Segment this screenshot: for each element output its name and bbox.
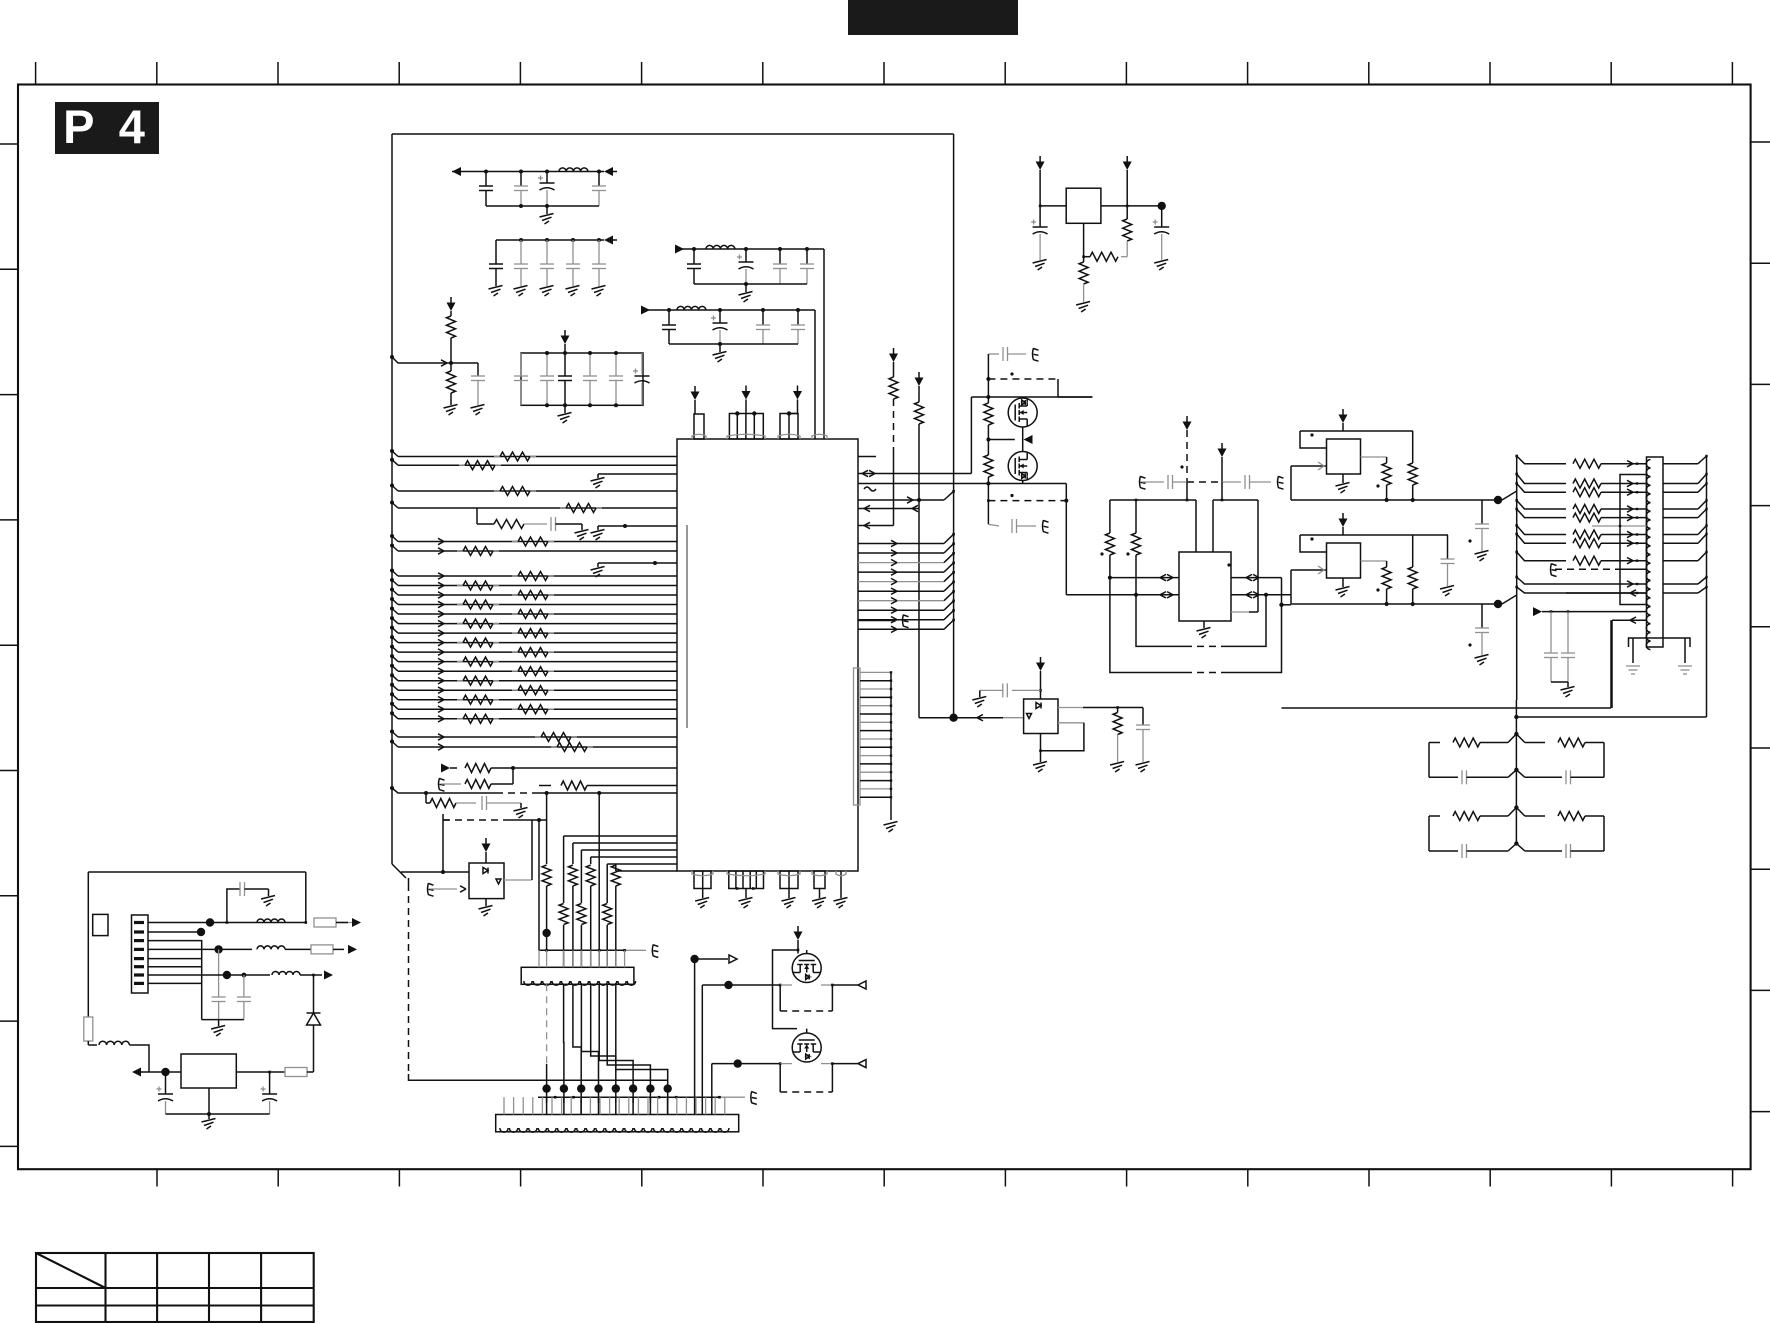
CN4 pin arcs [500, 1128, 508, 1132]
wire bus tap [390, 588, 394, 592]
epsilon stub [1033, 348, 1039, 361]
wire row y=604.5 [398, 604, 677, 606]
divider power flag [450, 297, 452, 303]
connector CN2 body [1647, 457, 1664, 647]
resistor R1 [457, 585, 463, 587]
wire [1290, 570, 1292, 604]
U3 feedback loop [1058, 722, 1084, 724]
capacitor X1Cy [1481, 500, 1483, 524]
ground [1136, 762, 1150, 766]
wire gate row [987, 428, 989, 455]
junction [1514, 715, 1518, 719]
IC U1 bottom pads [692, 871, 713, 876]
power flag VDD3 [797, 386, 799, 392]
wire riser 919 elbow to U3 [919, 717, 954, 719]
wire rail drops [1109, 500, 1111, 533]
resistor CN2 R4 [1573, 505, 1601, 514]
arrow [438, 716, 444, 719]
wire bus tap [390, 673, 394, 677]
junction [449, 361, 453, 365]
junction [724, 981, 732, 989]
wire bus tap [390, 654, 394, 658]
junction [667, 308, 671, 312]
wire [524, 523, 547, 525]
filter F1 left off-page arrow [452, 167, 461, 176]
wire [307, 1071, 314, 1073]
ground [566, 286, 580, 290]
wire riser 919 [918, 500, 920, 718]
wire [443, 819, 449, 821]
tilde glyph [864, 487, 876, 491]
capacitor C44 branch [227, 889, 240, 923]
CN1 wire 1 [148, 922, 306, 924]
termination C pair row [1508, 770, 1525, 778]
tiny dot [1468, 643, 1471, 646]
resistor R1 [512, 689, 518, 691]
resistor CN2 R8 [1573, 556, 1601, 565]
wire left pin2 [1291, 465, 1327, 467]
wire left drop [1300, 431, 1327, 448]
capacitor C25 [550, 517, 552, 531]
oscillator X1 top rail [1300, 430, 1413, 432]
wire [129, 1045, 149, 1072]
capacitor C48 electrolytic [269, 1072, 271, 1094]
power flag bank [564, 330, 566, 336]
arrow [438, 706, 444, 709]
ground [745, 889, 747, 899]
ground [702, 889, 704, 899]
wire nested row 1 [573, 842, 677, 844]
arrow [438, 548, 444, 551]
wire row y=680.7 [398, 680, 677, 682]
arrow [438, 668, 444, 671]
resistor R2 [450, 363, 452, 371]
wire [598, 525, 677, 527]
connector CN2 pin arcs [1646, 460, 1650, 468]
resistor R1 [551, 746, 557, 748]
filter F3 bottom rail [694, 283, 807, 285]
wire shuffle 0 [546, 984, 548, 1064]
wire row 483 right [858, 483, 988, 485]
page label P 4 [55, 102, 159, 154]
termination left edge [1428, 816, 1430, 851]
filter F4 bottom rail [669, 343, 798, 345]
tiny dot [1310, 537, 1313, 540]
bottom margin tick marks [156, 1169, 158, 1186]
wire bundle row [858, 609, 944, 611]
wire riser [970, 397, 972, 474]
power flag VDD2 [745, 386, 747, 392]
junction [511, 766, 515, 770]
IC U1 top pin stub group 3 [780, 414, 798, 440]
junction output node [1494, 496, 1502, 504]
resistor R1 [560, 507, 566, 509]
block outline right edge vertical bus [953, 134, 955, 491]
junction [545, 949, 548, 952]
resistor CN2 R7 [1573, 539, 1601, 548]
resistor CN2 R3 [1573, 488, 1601, 497]
inductor L7 [272, 972, 300, 975]
power flag dashed net [893, 348, 895, 354]
capacitor C7 [546, 240, 548, 264]
CN2 row right side [1663, 491, 1698, 493]
capacitor C30 [1002, 347, 1004, 361]
wire U4 to oscillator B [1282, 604, 1292, 606]
wire row y=709.2 [398, 708, 677, 710]
wire bus tap [390, 597, 394, 601]
tiny dot [1310, 433, 1313, 436]
IC U1 bottom pin stub 4 [814, 871, 825, 889]
dashed link [1187, 481, 1222, 483]
junction [519, 170, 523, 174]
CN3 pin arcs [524, 981, 532, 985]
capacitor C34 net [1140, 476, 1146, 489]
wire shuffle 4 [591, 984, 616, 1088]
wire row y=508 [398, 507, 677, 509]
wire U6 row [135, 1071, 181, 1073]
junction [1116, 706, 1119, 709]
wire top rail [970, 396, 972, 398]
capacitor C41 [1567, 612, 1569, 653]
transistor Q1 mosfet [1008, 398, 1037, 427]
black header box top center [848, 0, 1018, 35]
fuse F1 vertical [84, 1017, 93, 1041]
wire bus bottom elbow to lower strip [409, 1074, 668, 1080]
ground [261, 896, 275, 900]
resistor R1 [457, 680, 463, 682]
column 590 [590, 857, 592, 864]
resistor R1 [512, 651, 518, 653]
long wire from bus [409, 1079, 668, 1081]
capacitor C26 [481, 796, 483, 810]
wire gnd stub row 563 [598, 562, 677, 564]
capacitor C19 [546, 353, 548, 376]
ground [514, 286, 528, 290]
column 546 [546, 793, 548, 864]
power flag VDD1 [694, 386, 696, 392]
ground [745, 284, 747, 292]
wire row y=456.5 [398, 456, 677, 458]
arrow [438, 687, 444, 690]
power flag U5 in [1039, 156, 1041, 162]
resistor R46 [1132, 533, 1141, 555]
block outline chamfer [392, 864, 406, 878]
wire row 397 [971, 396, 1092, 398]
arrow gate node [1024, 435, 1033, 444]
column 563 [563, 836, 565, 903]
junction [268, 1071, 271, 1074]
wire cap risers [1186, 482, 1188, 500]
resistor CN2 R2 [1573, 479, 1601, 488]
CN1 wire 7 [148, 974, 270, 976]
inductor L1 [559, 168, 588, 172]
arrow [438, 744, 444, 747]
block outline top edge [392, 133, 954, 135]
CN2 row right side [1663, 534, 1698, 536]
wire bus tap [390, 544, 394, 548]
power flag U4 [1221, 443, 1223, 449]
termination center bus [1515, 700, 1517, 844]
CN2 wire row 3 [1515, 482, 1518, 485]
net bus collector [890, 672, 892, 820]
ground [1475, 551, 1489, 555]
wire row y=737 [398, 736, 677, 738]
wire [1017, 525, 1037, 527]
resistor R30 [465, 764, 491, 773]
filter F1 right arrow [604, 167, 613, 176]
wire C45 drop [218, 949, 220, 997]
wire bus tap [390, 569, 394, 573]
arrow [438, 639, 444, 642]
resistor R1 [512, 541, 518, 543]
wire Q2 source [1022, 481, 1024, 484]
resistor R1 [457, 623, 463, 625]
wire shuffle 7 [616, 984, 668, 1088]
ground [1033, 260, 1047, 264]
Q3 bypass loop [779, 985, 781, 1011]
ground [592, 286, 606, 290]
wire row 508 right [858, 508, 919, 510]
CN3 pin drops [538, 950, 540, 967]
capacitor C22 [615, 353, 617, 376]
wire [1065, 484, 1067, 595]
power flag U5 out [1126, 156, 1128, 162]
capacitor C40 [1550, 612, 1552, 653]
junction [986, 438, 990, 442]
junction [1514, 841, 1518, 845]
power arrow row 768 [441, 764, 450, 773]
arrow [441, 360, 447, 363]
wire [87, 1041, 89, 1045]
ground [788, 889, 790, 899]
resistor R1 [459, 464, 465, 466]
wire bus tap [390, 711, 394, 715]
arrow [438, 678, 444, 681]
ground stub [591, 530, 605, 534]
wire columns into CN4 [546, 1097, 548, 1114]
arrow left out [132, 1068, 141, 1077]
capacitor C5 [495, 240, 497, 264]
CN2 wire row 7 [1515, 533, 1518, 536]
CN2 wire row 5 [1515, 508, 1518, 511]
component outline small rect [93, 914, 108, 935]
arrow [438, 601, 444, 604]
resistor R1 [457, 550, 463, 552]
bus vertical right of IC [953, 491, 955, 717]
wire nested row 3 [591, 856, 677, 858]
IC U1 microcontroller body [677, 439, 858, 871]
ground X2 [1342, 578, 1344, 587]
resistor R1 [512, 575, 518, 577]
capacitor C4 [598, 172, 600, 187]
wire nested row 2 [581, 849, 677, 851]
wire bus tap [390, 607, 394, 611]
junction [214, 945, 222, 953]
wire osc A left link [1290, 465, 1292, 467]
CN2 row right side [1663, 483, 1698, 485]
wire row 500 right [858, 499, 944, 501]
resistor CN2 R1 [1573, 459, 1601, 468]
termination R pair row [1508, 734, 1525, 743]
tiny dot [1100, 552, 1103, 555]
junction [597, 170, 601, 174]
resistor R45 [1105, 533, 1114, 555]
ground [208, 1114, 210, 1119]
wire nested row 5 [616, 870, 677, 872]
capacitor C3 electrolytic [546, 172, 548, 184]
junction [223, 971, 231, 979]
junction [1135, 499, 1138, 502]
BL bottom bus [166, 1113, 270, 1115]
diode box U2 [469, 863, 504, 899]
junction [986, 377, 990, 381]
column 572 [572, 843, 574, 864]
junction [161, 1068, 169, 1076]
capacitor C21 [589, 353, 591, 376]
ground [1475, 655, 1489, 659]
CN2 row right side [1663, 542, 1698, 544]
dashed row 379 [988, 378, 1058, 380]
wire rail link row 717 [1516, 716, 1706, 718]
epsilon stub [439, 778, 445, 791]
wire cap bottoms [1551, 681, 1568, 683]
junction [1082, 255, 1085, 258]
arrow [438, 592, 444, 595]
IC U1 top pin stub 1 [694, 414, 704, 439]
wire shuffle 5 [599, 984, 633, 1088]
resistor R1 [457, 604, 463, 606]
wire row y=699.7 [398, 699, 677, 701]
wire bundle row [858, 628, 944, 630]
capacitor C14 [668, 310, 670, 325]
junction [1126, 205, 1129, 208]
capacitor C45 [212, 996, 226, 998]
wire bundle row [858, 619, 944, 621]
junction output node [1494, 600, 1502, 608]
top margin tick marks [35, 62, 37, 85]
wire bus tap [390, 484, 394, 488]
IC U1 right port pins to bus [860, 671, 891, 673]
transistor Q4 mosfet [792, 1033, 821, 1062]
wire filter F3 to IC [823, 249, 825, 439]
capacitor C10 [693, 249, 695, 264]
wire Q4 source row [780, 1063, 792, 1065]
junction [797, 949, 800, 952]
wire bundle row [858, 571, 944, 573]
filter F4 input power arrow [641, 306, 650, 315]
junction [1385, 498, 1389, 502]
CN2 right rail [1706, 457, 1708, 718]
capacitor C32 net [1012, 689, 1041, 691]
strip CN4 top bus [538, 1096, 721, 1098]
CN2 row back arrow [1566, 592, 1647, 594]
wire bus tap [390, 664, 394, 668]
U4 ground [1203, 621, 1205, 628]
svg-text:P 4: P 4 [63, 100, 151, 153]
junction dots row [542, 1084, 550, 1092]
junction [519, 204, 523, 208]
resistor R42 [984, 403, 993, 425]
U3 ground stem [1040, 734, 1042, 763]
wire output [1361, 456, 1387, 458]
junction [735, 411, 739, 415]
wire branch to RC row [476, 508, 478, 524]
arrow [460, 886, 466, 889]
capacitor C2 [520, 172, 522, 187]
junction [207, 1112, 211, 1116]
wire bus tap [390, 616, 394, 620]
IC U1 inner bus line [686, 525, 688, 728]
junction [744, 282, 748, 286]
transistor Q2 mosfet [1008, 452, 1037, 481]
arrow out [314, 974, 323, 976]
wire U4 row lower right [1231, 594, 1291, 596]
output row Q3 [702, 984, 780, 986]
junction [692, 247, 696, 251]
power flag U2 [485, 838, 487, 844]
wire bus tap [390, 740, 394, 744]
filter F3 rail [684, 248, 824, 250]
CN1 wire 3 [148, 941, 202, 1020]
wire bus tap [390, 635, 394, 639]
CN2 row right side [1663, 463, 1698, 465]
junction [1264, 593, 1268, 597]
oscillator X2 top rail [1300, 534, 1448, 536]
wire [491, 783, 513, 785]
wire row y=541.5 [398, 541, 677, 543]
CN2 return row [1612, 619, 1647, 621]
power flag U3 [1040, 657, 1042, 663]
wire row 872 [401, 871, 469, 873]
arrow [438, 649, 444, 652]
IR receiver U3 body [1024, 699, 1058, 734]
U4 loop 1 [1136, 595, 1185, 647]
wire U4 row upper right [1231, 577, 1282, 579]
wire diagonal to connector [1502, 491, 1517, 500]
U4 rail left [1110, 499, 1196, 501]
wire bus tap [390, 501, 394, 505]
arrow [438, 630, 444, 633]
connector strip CN3 body [521, 967, 634, 984]
ground [471, 405, 485, 409]
power flag X1 [1342, 409, 1344, 415]
junction [1514, 805, 1518, 809]
wire output [1361, 560, 1387, 562]
wire [333, 948, 344, 950]
wire bus tap [390, 578, 394, 582]
output row Q4 [712, 1063, 780, 1065]
IC U1 bottom pin stub 1 [694, 871, 711, 889]
filter F1 top rail [452, 171, 604, 173]
CN1 wire 5 [148, 958, 202, 960]
junction [1514, 732, 1518, 736]
wire bus tap [390, 458, 394, 462]
wire long link row 708 [1282, 707, 1612, 709]
ground [514, 808, 528, 812]
capacitor C23 electrolytic [641, 353, 643, 374]
CN2 wire row 9 [1515, 576, 1518, 579]
inductor L3 [677, 306, 706, 310]
junction [542, 929, 550, 937]
wire arrow out [336, 922, 352, 924]
junction [424, 791, 428, 795]
CN1 wire 2 [148, 931, 201, 933]
wire row y=671.2 [398, 670, 677, 672]
ground [719, 344, 721, 352]
wire row 620 epsilon stub [858, 620, 896, 622]
resistor X1Rb [1412, 431, 1414, 463]
resistor R1 [494, 456, 500, 458]
